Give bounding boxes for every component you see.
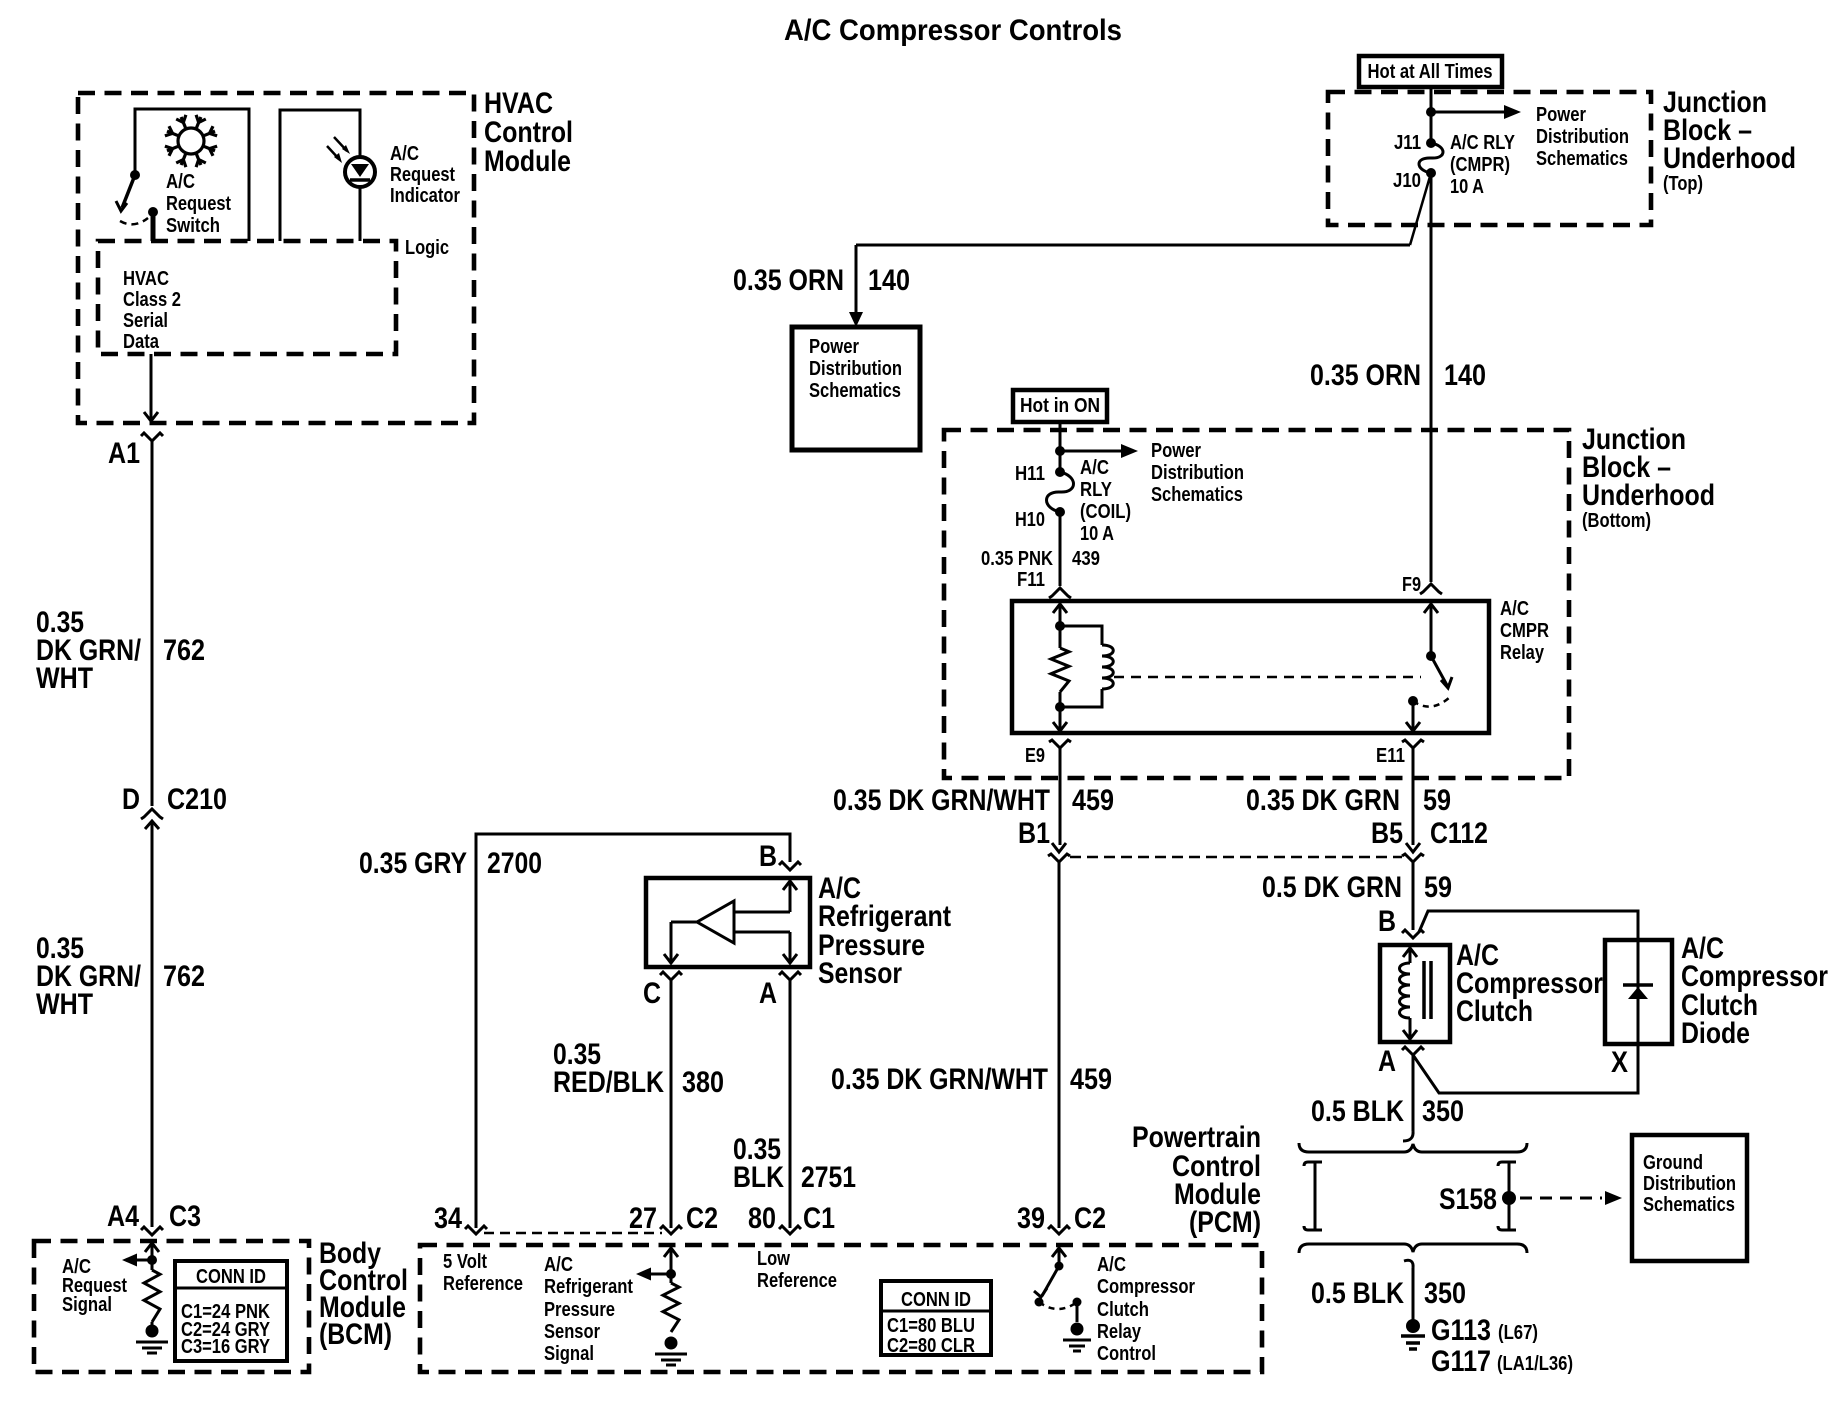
logic box: HVAC Class 2 Serial Data (dashed) [98, 241, 396, 354]
svg-text:Logic: Logic [405, 237, 449, 259]
module box: Junction Block Underhood Top (dashed) [1328, 92, 1651, 225]
svg-text:BLK: BLK [733, 1161, 784, 1194]
svg-text:A: A [1378, 1045, 1396, 1078]
svg-text:34: 34 [434, 1202, 462, 1235]
wire indicator loop [280, 110, 360, 241]
svg-text:0.5 BLK: 0.5 BLK [1311, 1095, 1404, 1128]
svg-text:A/C RLY: A/C RLY [1450, 132, 1516, 154]
svg-text:Schematics: Schematics [1151, 484, 1243, 506]
svg-text:H10: H10 [1015, 509, 1045, 531]
svg-text:J10: J10 [1393, 170, 1421, 192]
ground G113/G117 [1406, 1319, 1420, 1333]
svg-text:Schematics: Schematics [1643, 1194, 1735, 1216]
svg-text:C112: C112 [1430, 817, 1488, 850]
svg-text:Request: Request [390, 164, 455, 186]
svg-text:Ground: Ground [1643, 1152, 1703, 1174]
svg-text:2751: 2751 [801, 1161, 856, 1194]
relay switch [1424, 604, 1438, 613]
wire B5 to clutch B [1412, 862, 1415, 930]
LED A/C Request Indicator [345, 157, 375, 187]
svg-text:Relay: Relay [1500, 642, 1545, 664]
svg-text:(LA1/L36): (LA1/L36) [1497, 1353, 1573, 1375]
svg-text:0.35 DK GRN: 0.35 DK GRN [1246, 784, 1400, 817]
svg-text:(PCM): (PCM) [1189, 1206, 1261, 1239]
svg-text:27: 27 [629, 1202, 657, 1235]
node F11 connector [1049, 588, 1071, 598]
wire A to S158 [1412, 1055, 1415, 1131]
svg-text:(COIL): (COIL) [1080, 501, 1131, 523]
splice left terminal [1304, 1162, 1322, 1230]
svg-text:C3=16 GRY: C3=16 GRY [181, 1336, 271, 1358]
wire pin A4 internal [145, 1243, 159, 1252]
svg-text:Switch: Switch [166, 215, 220, 237]
splice bottom brace [1299, 1244, 1527, 1253]
connector C112 dashed link [1070, 856, 1402, 859]
svg-text:59: 59 [1424, 871, 1452, 904]
svg-text:459: 459 [1070, 1063, 1112, 1096]
svg-text:Power: Power [809, 336, 859, 358]
ref box: Power Distribution Schematics [792, 327, 920, 450]
wire C210 to A4 [151, 821, 154, 1227]
module box: HVAC Control Module (dashed) [78, 93, 474, 423]
clutch coil [1403, 948, 1417, 957]
svg-text:Distribution: Distribution [1151, 462, 1244, 484]
wire diode bottom branch [1413, 1044, 1638, 1093]
svg-text:A/C: A/C [166, 171, 195, 193]
component box: A/C Compressor Clutch Diode [1605, 940, 1672, 1044]
svg-text:C3: C3 [169, 1200, 201, 1233]
svg-text:WHT: WHT [36, 662, 93, 695]
module box: Powertrain Control Module (dashed) [420, 1245, 1262, 1372]
svg-text:(Top): (Top) [1663, 173, 1703, 195]
svg-text:A4: A4 [107, 1200, 139, 1233]
switch S1 A/C Request Switch [130, 170, 140, 180]
svg-text:762: 762 [163, 634, 205, 667]
wire F11 feed [1059, 512, 1062, 586]
relay coil circuit [1053, 604, 1067, 613]
snowflake icon [165, 115, 217, 167]
svg-text:Signal: Signal [62, 1294, 112, 1316]
svg-text:CMPR: CMPR [1500, 620, 1549, 642]
svg-text:Control: Control [1097, 1343, 1156, 1365]
svg-text:80: 80 [748, 1202, 776, 1235]
svg-text:B1: B1 [1018, 817, 1050, 850]
svg-text:C2=80 CLR: C2=80 CLR [887, 1335, 975, 1357]
svg-text:A1: A1 [108, 437, 140, 470]
clutch plates [1422, 961, 1426, 1019]
svg-text:Reference: Reference [757, 1270, 837, 1292]
svg-text:Schematics: Schematics [1536, 148, 1628, 170]
svg-text:Compressor: Compressor [1097, 1276, 1195, 1298]
svg-text:G117: G117 [1431, 1345, 1491, 1378]
svg-text:0.5 DK GRN: 0.5 DK GRN [1262, 871, 1402, 904]
svg-text:C2: C2 [686, 1202, 718, 1235]
svg-text:Request: Request [166, 193, 231, 215]
wire switch top loop [135, 109, 249, 241]
svg-text:WHT: WHT [36, 988, 93, 1021]
svg-text:J11: J11 [1394, 132, 1421, 154]
svg-text:0.5 BLK: 0.5 BLK [1311, 1277, 1404, 1310]
svg-text:A: A [759, 977, 777, 1010]
splice S158 top brace [1299, 1143, 1527, 1152]
svg-text:X: X [1611, 1046, 1628, 1079]
svg-text:10 A: 10 A [1080, 523, 1114, 545]
svg-text:Schematics: Schematics [809, 380, 901, 402]
svg-text:Underhood: Underhood [1582, 479, 1715, 512]
svg-text:C1=80 BLU: C1=80 BLU [887, 1315, 975, 1337]
component box: A/C Refrigerant Pressure Sensor [646, 878, 810, 967]
wire J10 down to F9 [1430, 173, 1433, 582]
svg-text:Sensor: Sensor [818, 957, 902, 990]
svg-text:140: 140 [1444, 359, 1486, 392]
svg-text:E11: E11 [1376, 745, 1405, 767]
svg-text:350: 350 [1424, 1277, 1466, 1310]
light arrows into LED [334, 137, 347, 151]
relay actuation dashed link [1114, 676, 1421, 679]
svg-text:Indicator: Indicator [390, 185, 460, 207]
module box: Junction Block Underhood Bottom (dashed) [944, 430, 1569, 778]
svg-text:F9: F9 [1402, 574, 1421, 596]
svg-text:0.35 ORN: 0.35 ORN [1310, 359, 1421, 392]
module box: Body Control Module (dashed) [34, 1241, 309, 1372]
svg-text:Hot at All Times: Hot at All Times [1368, 61, 1493, 83]
svg-text:(Bottom): (Bottom) [1582, 510, 1651, 532]
wire E9 to B1 [1059, 748, 1062, 845]
wire B1 to pin 39 [1058, 862, 1061, 1228]
connector dashed link 34-27 [484, 1232, 662, 1235]
relay coil loops [1060, 626, 1102, 645]
svg-text:C1: C1 [803, 1202, 835, 1235]
svg-text:Distribution: Distribution [809, 358, 902, 380]
opamp triangle [697, 901, 734, 943]
wire diode top branch [1419, 911, 1638, 940]
pin 27 internal: sensor signal input [664, 1248, 678, 1257]
svg-text:Module: Module [484, 145, 571, 178]
svg-text:(CMPR): (CMPR) [1450, 154, 1510, 176]
wire A to pin80 [789, 980, 792, 1228]
svg-text:A/C: A/C [390, 143, 419, 165]
header box: Hot in ON [1013, 390, 1107, 422]
svg-text:Class 2: Class 2 [123, 289, 181, 311]
svg-text:S158: S158 [1439, 1183, 1497, 1216]
svg-text:Distribution: Distribution [1643, 1173, 1736, 1195]
svg-text:RED/BLK: RED/BLK [553, 1066, 664, 1099]
svg-text:Distribution: Distribution [1536, 126, 1629, 148]
svg-text:10 A: 10 A [1450, 176, 1484, 198]
svg-text:0.35 GRY: 0.35 GRY [359, 847, 467, 880]
svg-text:Signal: Signal [544, 1343, 594, 1365]
svg-text:Clutch: Clutch [1097, 1299, 1149, 1321]
ground BCM [151, 1322, 154, 1327]
svg-text:Hot in ON: Hot in ON [1020, 395, 1100, 417]
svg-text:350: 350 [1422, 1095, 1464, 1128]
svg-text:5 Volt: 5 Volt [443, 1251, 487, 1273]
svg-text:G113: G113 [1431, 1314, 1491, 1347]
svg-text:CONN ID: CONN ID [196, 1266, 266, 1288]
ref box: Ground Distribution Schematics [1632, 1135, 1747, 1261]
svg-text:B: B [1378, 905, 1396, 938]
svg-text:Reference: Reference [443, 1273, 523, 1295]
svg-text:Serial: Serial [123, 310, 168, 332]
wire 5V reference loop [476, 834, 790, 1228]
component box: A/C Compressor Clutch [1380, 945, 1450, 1042]
svg-text:H11: H11 [1015, 463, 1045, 485]
svg-text:Sensor: Sensor [544, 1321, 600, 1343]
svg-text:A/C: A/C [544, 1254, 573, 1276]
svg-text:CONN ID: CONN ID [901, 1289, 971, 1311]
header box: Hot at All Times [1359, 56, 1502, 87]
svg-text:140: 140 [868, 264, 910, 297]
svg-text:39: 39 [1017, 1202, 1045, 1235]
svg-text:B: B [759, 840, 777, 873]
wire J10 branch to horizontal [1410, 173, 1431, 245]
table CONN ID (BCM) [175, 1261, 287, 1361]
pin 39 internal: clutch relay driver switch [1052, 1248, 1066, 1257]
svg-text:A/C: A/C [1500, 598, 1529, 620]
splice right terminal [1498, 1162, 1516, 1230]
wire hot feed [1430, 87, 1433, 143]
svg-text:59: 59 [1423, 784, 1451, 817]
svg-text:2700: 2700 [487, 847, 542, 880]
svg-text:E9: E9 [1025, 745, 1045, 767]
svg-text:(BCM): (BCM) [319, 1318, 392, 1351]
svg-text:C210: C210 [167, 783, 227, 816]
svg-text:Underhood: Underhood [1663, 142, 1796, 175]
svg-text:RLY: RLY [1080, 479, 1113, 501]
wire class2 data out [150, 354, 153, 419]
svg-text:A/C: A/C [1097, 1254, 1126, 1276]
svg-text:0.35 PNK: 0.35 PNK [981, 548, 1053, 570]
node A1 connector [141, 433, 163, 441]
svg-text:Pressure: Pressure [544, 1299, 615, 1321]
svg-text:Power: Power [1151, 440, 1201, 462]
svg-text:439: 439 [1072, 548, 1100, 570]
svg-text:Relay: Relay [1097, 1321, 1142, 1343]
svg-text:Data: Data [123, 331, 160, 353]
wire S158 to ground [1404, 1260, 1413, 1268]
relay box: A/C CMPR Relay [1012, 601, 1489, 733]
svg-text:0.35 ORN: 0.35 ORN [733, 264, 844, 297]
svg-text:HVAC: HVAC [123, 268, 169, 290]
svg-text:Refrigerant: Refrigerant [544, 1276, 633, 1298]
svg-text:Clutch: Clutch [1456, 995, 1533, 1028]
table CONN ID (PCM) [881, 1281, 991, 1355]
svg-text:D: D [122, 783, 140, 816]
wire orn 140 horizontal [856, 244, 1410, 247]
resistor BCM pulldown [144, 1270, 160, 1322]
dashed arrow to ground dist [1520, 1197, 1602, 1200]
svg-text:B5: B5 [1371, 817, 1403, 850]
svg-text:Low: Low [757, 1248, 790, 1270]
wire A1 to C210 [151, 441, 154, 806]
svg-text:C2: C2 [1074, 1202, 1106, 1235]
svg-text:0.35 DK GRN/WHT: 0.35 DK GRN/WHT [833, 784, 1050, 817]
svg-text:380: 380 [682, 1066, 724, 1099]
svg-text:459: 459 [1072, 784, 1114, 817]
svg-text:762: 762 [163, 960, 205, 993]
svg-text:F11: F11 [1017, 569, 1045, 591]
svg-text:A/C Compressor Controls: A/C Compressor Controls [784, 14, 1122, 47]
wire hot in on feed [1059, 422, 1062, 472]
diode symbol [1637, 940, 1640, 1044]
wire C to pin27 [670, 980, 673, 1228]
svg-text:(L67): (L67) [1498, 1322, 1538, 1344]
svg-text:C: C [643, 977, 661, 1010]
svg-text:A/C: A/C [1080, 457, 1109, 479]
wire E11 to B5 [1412, 748, 1415, 845]
svg-text:Power: Power [1536, 104, 1586, 126]
svg-text:0.35 DK GRN/WHT: 0.35 DK GRN/WHT [831, 1063, 1048, 1096]
svg-text:Diode: Diode [1681, 1017, 1750, 1050]
